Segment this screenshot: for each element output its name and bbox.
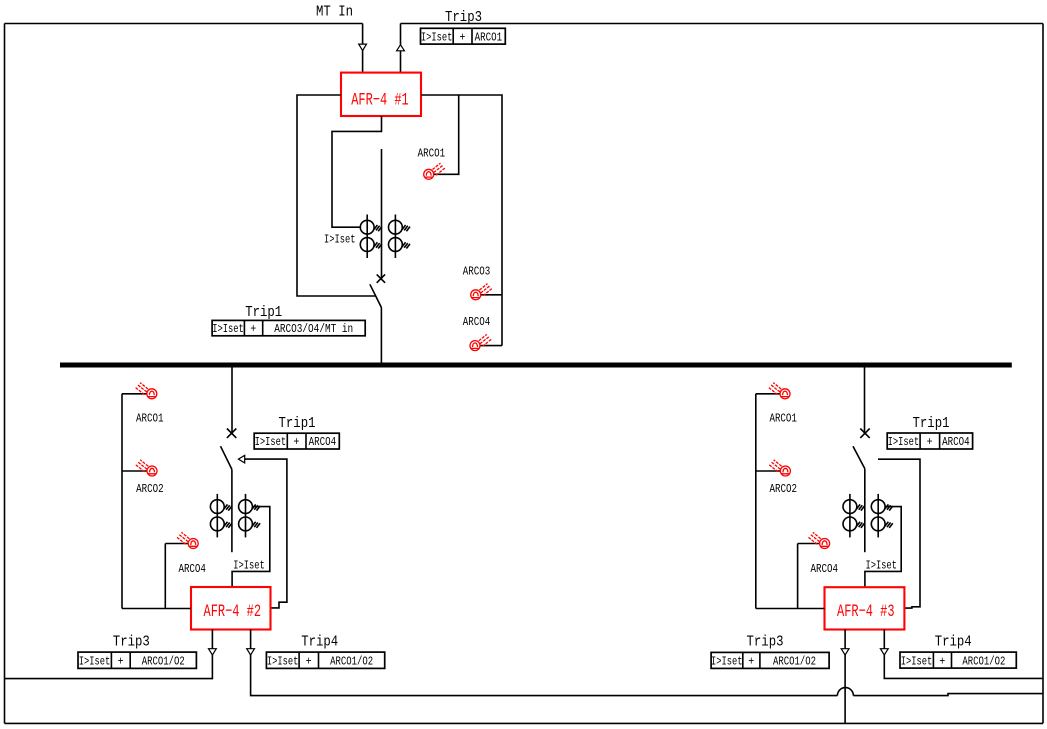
wire U3 left pin xyxy=(756,608,825,610)
svg-text:Trip1: Trip1 xyxy=(279,415,316,432)
wire ARC04 bay2 xyxy=(165,544,188,609)
CT T1b (bay1 right pair) xyxy=(389,215,411,259)
svg-text:Trip1: Trip1 xyxy=(913,415,950,432)
svg-text:ARCO1: ARCO1 xyxy=(475,30,503,44)
svg-text:ARCO1: ARCO1 xyxy=(136,411,164,425)
sensor ARC03 xyxy=(471,284,492,300)
svg-text:I>Iset: I>Iset xyxy=(324,233,356,247)
CT T3a (bay3 left pair) xyxy=(843,494,865,538)
logic box Trip4 bay3: I>Iset + ARC01/02 xyxy=(900,652,1016,668)
wire CT bay2 to relay top xyxy=(232,507,270,587)
svg-text:Trip3: Trip3 xyxy=(747,634,784,651)
svg-text:Trip3: Trip3 xyxy=(445,9,482,26)
wire feeder bay3 upper xyxy=(864,367,866,433)
svg-text:AFR−4 #2: AFR−4 #2 xyxy=(204,602,262,622)
svg-text:I>Iset: I>Iset xyxy=(888,435,920,449)
arrow Trip1 bay2 left xyxy=(238,455,244,463)
logic box Trip1 bay2: I>Iset + ARC04 xyxy=(254,433,339,449)
svg-text:ARCO3: ARCO3 xyxy=(463,265,491,279)
svg-text:+: + xyxy=(748,655,754,669)
sensor ARC04 (bay2) xyxy=(177,532,198,548)
svg-text:I>Iset: I>Iset xyxy=(267,654,299,668)
wire ARC01 bay3 xyxy=(756,393,780,395)
wire MT In drop xyxy=(362,24,364,73)
arrow Trip4 bay3 down xyxy=(880,649,888,655)
wire hop over bay3 trip3 xyxy=(837,688,853,696)
wire ARC03 branch xyxy=(481,294,502,296)
svg-text:ARCO1/O2: ARCO1/O2 xyxy=(330,654,373,668)
wire feeder bay1 upper xyxy=(381,149,383,279)
wire Trip4 bay3 output xyxy=(884,630,1043,679)
wire bay2 sensor trunk xyxy=(121,394,123,609)
wire U2 left pin xyxy=(122,608,191,610)
wire: top border Trip3 segment xyxy=(401,23,1044,25)
wire ARC01 bay2 xyxy=(122,393,147,395)
svg-text:+: + xyxy=(293,435,299,449)
svg-text:ARCO1/O2: ARCO1/O2 xyxy=(142,654,185,668)
wire feeder bay2 upper xyxy=(231,367,233,433)
svg-text:I>Iset: I>Iset xyxy=(212,322,244,336)
wire feeder bay2 lower xyxy=(231,469,233,552)
sensor ARC01 (bay2) xyxy=(136,383,157,399)
relay U3 AFR-4 #3 xyxy=(825,587,905,629)
svg-text:AFR−4 #3: AFR−4 #3 xyxy=(837,602,895,622)
wire ARC04 branch (bay1) xyxy=(480,345,502,347)
wire: right border trip3 run xyxy=(1042,24,1044,724)
sensor ARC04 (bay1) xyxy=(470,334,491,350)
logic box Trip1 bay3: I>Iset + ARC04 xyxy=(887,433,972,449)
svg-text:I>Iset: I>Iset xyxy=(901,654,933,668)
svg-text:Trip1: Trip1 xyxy=(245,304,282,321)
svg-text:ARCO4: ARCO4 xyxy=(309,435,337,449)
wire: bottom border xyxy=(5,722,1044,724)
logic box Trip3 bay3: I>Iset + ARC01/02 xyxy=(711,652,829,668)
svg-text:ARCO4: ARCO4 xyxy=(178,562,206,576)
arrow MT In down xyxy=(359,44,367,51)
logic box Trip3 bay2: I>Iset + ARC01/02 xyxy=(78,652,196,668)
arrow Trip3 bay3 down xyxy=(841,649,849,655)
busbar xyxy=(60,363,1012,368)
breaker CB3 blade xyxy=(853,446,865,468)
wire Trip1 bay2 to relay xyxy=(245,459,287,608)
wire ARC02 bay3 xyxy=(756,470,781,472)
svg-text:I>Iset: I>Iset xyxy=(233,559,265,573)
svg-text:I>Iset: I>Iset xyxy=(711,655,743,669)
sensor ARC02 (bay3) xyxy=(769,460,790,476)
wire feeder bay1 lower xyxy=(380,308,382,364)
wire U1 bottom pin to CT xyxy=(332,116,382,227)
svg-text:AFR−4 #1: AFR−4 #1 xyxy=(351,90,409,110)
wire CT bay3 to relay top xyxy=(865,507,901,588)
svg-text:ARCO1: ARCO1 xyxy=(418,146,446,160)
sensor ARC01 (bay1) xyxy=(424,163,445,179)
breaker CB2 cross xyxy=(227,429,236,438)
svg-text:Trip4: Trip4 xyxy=(301,634,338,651)
wire trip chain to right border xyxy=(853,694,1043,696)
sensor ARC04 (bay3) xyxy=(808,532,829,548)
logic box Trip1 bay1: I>Iset + ARC03/04/MT in xyxy=(212,320,365,336)
relay U2 AFR-4 #2 xyxy=(191,587,271,630)
svg-text:+: + xyxy=(306,654,312,668)
svg-text:ARCO3/O4/MT in: ARCO3/O4/MT in xyxy=(274,322,353,336)
wire Trip3 bay3 output xyxy=(844,630,846,724)
wire bay3 sensor trunk xyxy=(755,394,757,609)
svg-text:ARCO1/O2: ARCO1/O2 xyxy=(962,654,1005,668)
svg-text:I>Iset: I>Iset xyxy=(255,435,287,449)
svg-text:ARCO2: ARCO2 xyxy=(770,482,798,496)
svg-text:I>Iset: I>Iset xyxy=(865,559,897,573)
logic box Trip4 bay2: I>Iset + ARC01/02 xyxy=(266,652,384,668)
relay U1 AFR-4 #1 xyxy=(341,73,421,116)
svg-text:I>Iset: I>Iset xyxy=(421,30,453,44)
breaker CB2 blade xyxy=(221,446,232,469)
svg-text:ARCO1: ARCO1 xyxy=(769,411,797,425)
CT T1a (bay1 left pair) xyxy=(360,215,382,259)
CT T2a (bay2 left pair) xyxy=(210,494,232,538)
breaker CB1 blade xyxy=(370,284,382,307)
breaker CB3 cross xyxy=(860,429,869,438)
wire ARC01 branch (bay1) xyxy=(434,95,459,174)
wire: left border trip loop xyxy=(4,24,6,724)
svg-text:Trip4: Trip4 xyxy=(935,634,972,651)
wire ARC02 bay2 xyxy=(122,470,147,472)
logic box Trip3 top: I>Iset + ARC01 xyxy=(421,28,506,44)
svg-text:ARCO2: ARCO2 xyxy=(136,482,164,496)
CT T2b (bay2 right pair) xyxy=(239,494,261,538)
sensor ARC02 (bay2) xyxy=(136,460,157,476)
wire U1 left aux to breaker blade xyxy=(297,95,376,296)
svg-text:+: + xyxy=(459,30,465,44)
arrow Trip3 up xyxy=(397,45,405,51)
sensor ARC01 (bay3) xyxy=(769,383,790,399)
svg-text:+: + xyxy=(118,654,124,668)
svg-text:I>Iset: I>Iset xyxy=(79,654,111,668)
svg-text:+: + xyxy=(939,654,945,668)
wire U1 right sensor bus xyxy=(421,95,502,346)
arrow Trip3 bay2 down xyxy=(209,649,217,655)
svg-text:+: + xyxy=(250,322,256,336)
svg-text:ARCO4: ARCO4 xyxy=(463,315,491,329)
wire: top border MT In segment xyxy=(5,23,363,25)
CT T3b (bay3 right pair) xyxy=(871,494,893,538)
wire Trip4 bay2 output xyxy=(251,630,838,696)
breaker CB1 cross xyxy=(377,274,385,282)
svg-text:ARCO4: ARCO4 xyxy=(811,562,839,576)
wire ARC04 bay3 xyxy=(798,544,820,609)
svg-text:+: + xyxy=(927,435,933,449)
svg-text:ARCO1/O2: ARCO1/O2 xyxy=(773,655,816,669)
svg-text:Trip3: Trip3 xyxy=(113,634,150,651)
wire Trip1 bay3 to relay xyxy=(878,459,920,608)
wire Trip3 riser xyxy=(400,24,402,73)
wire feeder bay3 lower xyxy=(864,469,866,553)
arrow Trip4 bay2 down xyxy=(247,649,255,655)
svg-text:MT In: MT In xyxy=(316,3,353,20)
svg-text:ARCO4: ARCO4 xyxy=(942,435,970,449)
wire Trip3 bay2 output xyxy=(5,630,213,679)
